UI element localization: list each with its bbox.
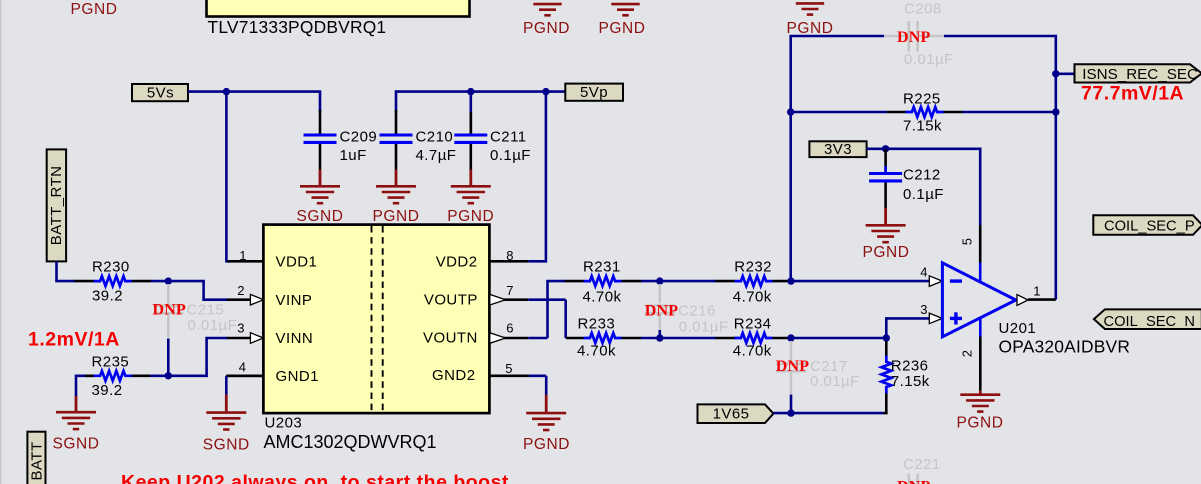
port BATT (vertical, cropped) bbox=[27, 432, 45, 484]
resistor R231 bbox=[565, 280, 585, 283]
svg-text:1V65: 1V65 bbox=[713, 406, 750, 423]
svg-text:U203: U203 bbox=[265, 415, 303, 432]
svg-text:0.01µF: 0.01µF bbox=[188, 317, 238, 334]
wire 5Vs rail bbox=[188, 92, 320, 112]
svg-text:4.70k: 4.70k bbox=[733, 288, 772, 305]
wire 5Vp rail bbox=[396, 92, 565, 112]
wire 3V3 to op-amp pin 5 bbox=[867, 149, 981, 225]
port BATT_RTN (vertical) bbox=[47, 149, 66, 261]
svg-text:1: 1 bbox=[239, 248, 247, 263]
svg-text:PGND: PGND bbox=[523, 20, 570, 37]
wire R230 to junction bbox=[151, 280, 168, 283]
wire pin 4 to ground bbox=[226, 374, 263, 377]
svg-text:R233: R233 bbox=[578, 315, 616, 332]
node C217 top bbox=[787, 334, 794, 341]
ground PGND under C210 bbox=[395, 170, 398, 187]
wire 1V65 to R236 bbox=[773, 412, 883, 415]
svg-text:DNP: DNP bbox=[897, 29, 931, 46]
svg-text:U201: U201 bbox=[999, 320, 1037, 337]
node VINP junction bbox=[165, 277, 172, 284]
svg-text:VOUTN: VOUTN bbox=[423, 330, 478, 347]
svg-text:5: 5 bbox=[505, 361, 513, 376]
node C212 tap bbox=[882, 145, 889, 152]
pin 1 VDD1 bbox=[228, 260, 264, 263]
resistor R235 bbox=[76, 376, 94, 397]
svg-text:SGND: SGND bbox=[297, 208, 344, 225]
svg-text:VDD1: VDD1 bbox=[276, 254, 318, 271]
svg-text:BATT_RTN: BATT_RTN bbox=[48, 166, 65, 246]
resistor R230 bbox=[75, 280, 95, 283]
wire R234 to R236 bbox=[791, 337, 886, 340]
wire to ISNS port bbox=[1056, 73, 1075, 76]
svg-text:0.01µF: 0.01µF bbox=[810, 373, 860, 390]
junction VDD2 drop bbox=[542, 88, 549, 95]
svg-text:7.15k: 7.15k bbox=[891, 373, 930, 390]
svg-text:C216: C216 bbox=[678, 303, 716, 320]
svg-text:DNP: DNP bbox=[645, 303, 679, 320]
wire R231 to R232 bbox=[641, 280, 716, 283]
node 1V65 junction bbox=[787, 409, 794, 416]
svg-text:PGND: PGND bbox=[523, 436, 570, 453]
svg-text:SGND: SGND bbox=[53, 436, 100, 453]
resistor R236 (vertical) bbox=[885, 341, 888, 358]
capacitor C208 (DNP, gray, horizontal) bbox=[884, 35, 908, 37]
edge line bbox=[0, 0, 2, 484]
svg-text:2: 2 bbox=[960, 350, 975, 358]
port 5Vs bbox=[132, 84, 188, 101]
svg-text:6: 6 bbox=[506, 321, 514, 336]
svg-text:PGND: PGND bbox=[373, 208, 420, 225]
ground PGND under C211 bbox=[469, 170, 472, 187]
op-amp U201 triangle bbox=[942, 263, 1015, 337]
isolation barrier dashed lines bbox=[371, 226, 373, 412]
pin 2 VINP bbox=[226, 298, 251, 301]
svg-text:VINP: VINP bbox=[276, 292, 313, 309]
svg-text:R230: R230 bbox=[92, 259, 130, 276]
svg-text:C212: C212 bbox=[903, 167, 941, 184]
svg-text:C221: C221 bbox=[903, 456, 941, 473]
svg-text:8: 8 bbox=[506, 248, 514, 263]
svg-text:4: 4 bbox=[920, 265, 928, 280]
op-amp output pin 1 bbox=[1017, 295, 1028, 306]
junction C211 bbox=[467, 88, 474, 95]
U203 body bbox=[263, 225, 489, 414]
minus symbol bbox=[950, 279, 962, 282]
wire to op-amp pin 4 bbox=[791, 280, 929, 283]
svg-text:1.2mV/1A: 1.2mV/1A bbox=[28, 329, 120, 351]
svg-text:C215: C215 bbox=[187, 301, 225, 318]
node VINN junction bbox=[165, 372, 172, 379]
svg-text:GND1: GND1 bbox=[276, 368, 319, 385]
svg-text:4.70k: 4.70k bbox=[733, 342, 772, 359]
capacitor C216 (DNP, gray) bbox=[659, 284, 661, 303]
svg-text:PGND: PGND bbox=[957, 415, 1004, 432]
svg-text:0.1µF: 0.1µF bbox=[490, 147, 531, 164]
svg-text:4: 4 bbox=[239, 360, 247, 375]
resistor R225 bbox=[791, 111, 887, 114]
wire pin 6 to upper row bbox=[528, 337, 547, 340]
pin 6 VOUTN bbox=[489, 337, 528, 340]
op-amp pin 2 (gnd) bbox=[979, 318, 982, 337]
svg-text:R234: R234 bbox=[734, 315, 772, 332]
svg-text:PGND: PGND bbox=[71, 1, 118, 18]
svg-text:PGND: PGND bbox=[787, 20, 834, 37]
svg-text:C211: C211 bbox=[490, 128, 527, 145]
port 1V65 bbox=[698, 404, 774, 423]
svg-text:3V3: 3V3 bbox=[824, 141, 852, 158]
pin 5 GND2 bbox=[489, 374, 528, 377]
node ISNS tap bbox=[1052, 70, 1059, 77]
svg-text:DNP: DNP bbox=[776, 358, 810, 375]
ground PGND (cropped) near x=547 bbox=[533, 4, 561, 15]
svg-text:OPA320AIDBVR: OPA320AIDBVR bbox=[999, 337, 1131, 357]
wire op-amp pin 5 (power) bbox=[979, 225, 982, 263]
wire pin 5 to ground bbox=[529, 374, 546, 377]
svg-text:3: 3 bbox=[920, 302, 928, 317]
wire to op-amp pin 3 bbox=[886, 318, 929, 338]
capacitor C209 bbox=[319, 110, 322, 134]
node R236 top bbox=[883, 334, 890, 341]
capacitor C217 (DNP, gray) bbox=[790, 341, 792, 362]
svg-text:1: 1 bbox=[1033, 284, 1041, 299]
svg-text:39.2: 39.2 bbox=[92, 382, 123, 399]
port 5Vp bbox=[565, 84, 623, 101]
svg-text:COIL_SEC_P: COIL_SEC_P bbox=[1104, 219, 1195, 235]
svg-text:VDD2: VDD2 bbox=[436, 254, 478, 271]
svg-text:R225: R225 bbox=[903, 91, 941, 108]
node R225 tap bbox=[1052, 108, 1059, 115]
pin 7 VOUTP bbox=[489, 298, 528, 301]
wire junction to pin 3 bbox=[168, 338, 227, 376]
svg-text:0.01µF: 0.01µF bbox=[904, 51, 954, 68]
ground PGND under op-amp bbox=[979, 391, 982, 395]
svg-text:AMC1302QDWVRQ1: AMC1302QDWVRQ1 bbox=[264, 432, 437, 452]
svg-text:39.2: 39.2 bbox=[92, 287, 123, 304]
resistor R233 bbox=[566, 337, 584, 340]
ground PGND under pin 5 bbox=[545, 395, 548, 413]
svg-text:GND2: GND2 bbox=[432, 367, 475, 384]
node C216 top bbox=[656, 277, 663, 284]
pin 3 VINN bbox=[226, 337, 251, 340]
ground PGND (cropped) near x=625 bbox=[611, 4, 639, 15]
wire BATT_RTN to R230 bbox=[57, 261, 76, 281]
pin 8 VDD2 bbox=[489, 260, 528, 263]
capacitor C212 bbox=[884, 149, 887, 172]
svg-text:1uF: 1uF bbox=[340, 147, 367, 164]
capacitor C211 bbox=[469, 92, 472, 134]
svg-text:4.70k: 4.70k bbox=[577, 342, 616, 359]
plus symbol bbox=[950, 317, 962, 320]
capacitor C215 (DNP, gray) bbox=[167, 284, 169, 304]
wire VDD2 drop bbox=[528, 92, 546, 262]
port 3V3 bbox=[809, 141, 866, 157]
svg-text:Keep U202 always on, to start: Keep U202 always on, to start the boost bbox=[121, 471, 509, 484]
svg-text:5Vp: 5Vp bbox=[580, 84, 608, 101]
svg-text:ISNS_REC_SEC: ISNS_REC_SEC bbox=[1082, 66, 1198, 83]
svg-text:PGND: PGND bbox=[599, 20, 646, 37]
svg-text:4.7µF: 4.7µF bbox=[416, 147, 457, 164]
svg-text:DNP: DNP bbox=[153, 301, 187, 318]
wire pin 7 to lower row bbox=[528, 298, 565, 301]
wire C208 to right vertical bbox=[944, 36, 1056, 300]
resistor R234 bbox=[716, 337, 736, 340]
regulator U202 body (cropped at top) bbox=[207, 0, 470, 17]
port ISNS_REC_SEC bbox=[1075, 64, 1201, 82]
port COIL_SEC_N bbox=[1094, 309, 1201, 329]
svg-text:0.1µF: 0.1µF bbox=[903, 186, 944, 203]
svg-text:PGND: PGND bbox=[447, 208, 494, 225]
ground PGND under C212 bbox=[884, 208, 887, 225]
wire feedback left vertical bbox=[791, 36, 884, 281]
ground SGND under pin 4 bbox=[225, 395, 228, 413]
wire junction to pin 2 bbox=[168, 281, 227, 300]
pin 4 GND1 bbox=[226, 374, 263, 377]
svg-text:VINN: VINN bbox=[276, 330, 314, 347]
junction 5Vs/pin1 bbox=[223, 88, 230, 95]
node inverting input bbox=[787, 277, 794, 284]
port COIL_SEC_P bbox=[1093, 215, 1201, 235]
svg-text:77.7mV/1A: 77.7mV/1A bbox=[1081, 83, 1184, 105]
svg-text:5: 5 bbox=[960, 238, 975, 246]
svg-text:SGND: SGND bbox=[203, 436, 250, 453]
svg-text:5Vs: 5Vs bbox=[147, 85, 174, 102]
ground SGND under C209 bbox=[319, 170, 322, 187]
svg-text:TLV71333PQDBVRQ1: TLV71333PQDBVRQ1 bbox=[208, 17, 387, 37]
svg-text:DNP: DNP bbox=[897, 479, 931, 484]
svg-text:VOUTP: VOUTP bbox=[424, 291, 478, 308]
svg-text:3: 3 bbox=[237, 321, 245, 336]
svg-text:C209: C209 bbox=[340, 128, 378, 145]
node R225 left bbox=[787, 108, 794, 115]
wire R233 to R234 bbox=[641, 337, 716, 340]
svg-text:7.15k: 7.15k bbox=[903, 118, 942, 135]
svg-text:4.70k: 4.70k bbox=[583, 288, 622, 305]
svg-text:2: 2 bbox=[237, 283, 245, 298]
svg-text:7: 7 bbox=[506, 283, 514, 298]
svg-text:C208: C208 bbox=[904, 1, 942, 18]
capacitor C210 bbox=[395, 110, 398, 134]
svg-text:R231: R231 bbox=[583, 259, 621, 276]
resistor R232 bbox=[716, 280, 736, 283]
ground PGND (cropped) near x=810 bbox=[796, 3, 824, 14]
wire down to pin 1 bbox=[226, 92, 230, 262]
svg-text:R232: R232 bbox=[734, 259, 772, 276]
svg-text:C210: C210 bbox=[416, 128, 454, 145]
svg-text:BATT: BATT bbox=[29, 441, 46, 480]
svg-text:COIL_SEC_N: COIL_SEC_N bbox=[1104, 314, 1195, 330]
svg-text:R235: R235 bbox=[92, 354, 130, 371]
svg-text:0.01µF: 0.01µF bbox=[679, 319, 729, 336]
ground SGND under R235 bbox=[75, 396, 78, 412]
node C216 bottom bbox=[656, 334, 663, 341]
svg-text:PGND: PGND bbox=[863, 244, 910, 261]
